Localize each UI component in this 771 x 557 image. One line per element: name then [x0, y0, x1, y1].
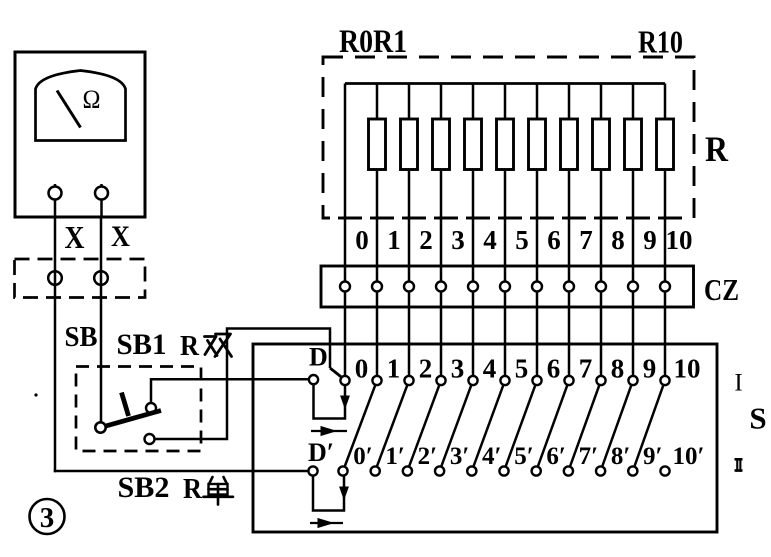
- CZ socket 5: [500, 282, 510, 292]
- CZ socket 7: [564, 282, 574, 292]
- contact 6-prime row II: [532, 466, 541, 475]
- contact 10 row I: [660, 376, 669, 385]
- svg-text:0: 0: [355, 354, 369, 384]
- contact 0-prime row II: [338, 466, 347, 475]
- svg-text:R10: R10: [638, 24, 683, 60]
- figure number circled 3: [30, 499, 65, 534]
- CZ socket 8: [596, 282, 606, 292]
- tick: tap line 8 crosses dashed box bottom: [594, 217, 608, 220]
- svg-text:3: 3: [451, 225, 465, 255]
- label dan (single): [204, 477, 234, 505]
- wire: right lead from ohmmeter down to SB1 pivot: [100, 217, 103, 428]
- brush D left pin: [309, 375, 318, 384]
- resistor R5: [497, 119, 514, 170]
- svg-text:5′: 5′: [514, 443, 534, 470]
- wire: tap line 9: [632, 84, 635, 377]
- svg-text:SB2: SB2: [118, 471, 170, 504]
- svg-text:R: R: [705, 129, 729, 169]
- resistor R4: [465, 119, 482, 170]
- ohmmeter case: [15, 52, 145, 217]
- svg-text:10: 10: [666, 225, 693, 255]
- socket right: [94, 271, 108, 285]
- svg-text:R: R: [183, 474, 203, 505]
- svg-text:D′: D′: [308, 438, 334, 467]
- tick: tap line 10 crosses dashed box bottom: [658, 217, 672, 220]
- svg-text:7′: 7′: [579, 443, 599, 470]
- wire: tap line 5: [504, 84, 507, 377]
- wire: SB1 lower contact via R-shuang loop to wiper D: [154, 329, 330, 440]
- contact 1 row I: [372, 376, 381, 385]
- wire: bottom run SB2 to D-prime brush: [54, 470, 309, 473]
- strap 9-prime to 10: [633, 381, 665, 472]
- strap 8-prime to 9: [601, 381, 633, 472]
- svg-text:10′: 10′: [672, 443, 704, 470]
- contact 9 row I: [628, 376, 637, 385]
- svg-text:9′: 9′: [643, 443, 663, 470]
- contact 4 row I: [468, 376, 477, 385]
- contact 2 row I: [404, 376, 413, 385]
- stray dot: [34, 393, 37, 396]
- contact 5-prime row II: [499, 466, 508, 475]
- strap 5-prime to 6: [504, 381, 537, 472]
- strap 1-prime to 2: [375, 381, 409, 472]
- wire: tap line 0: [344, 84, 347, 377]
- plug board CZ: [321, 266, 694, 307]
- svg-text:7: 7: [579, 225, 593, 255]
- contact 9-prime row II: [628, 466, 637, 475]
- wire: tap line 2: [408, 84, 411, 377]
- svg-text:5: 5: [515, 354, 529, 384]
- tick: tap line 2 crosses dashed box bottom: [402, 217, 416, 220]
- meter needle: [57, 91, 81, 128]
- resistor R3: [433, 119, 450, 170]
- wire: left lead from ohmmeter down: [54, 217, 57, 472]
- svg-text:I: I: [734, 370, 742, 397]
- contact 4-prime row II: [467, 466, 476, 475]
- svg-text:6: 6: [547, 354, 561, 384]
- strap 4-prime to 5: [472, 381, 505, 472]
- strap 7-prime to 8: [568, 381, 601, 472]
- CZ socket 10: [660, 282, 670, 292]
- tick: tap line 4 crosses dashed box bottom: [466, 217, 480, 220]
- wire: resistor top bus: [345, 82, 665, 85]
- contact 3-prime row II: [435, 466, 444, 475]
- resistor R9: [625, 119, 642, 170]
- switch SB1 lower contact: [145, 434, 155, 444]
- svg-text:10: 10: [674, 354, 701, 384]
- svg-text:2: 2: [419, 354, 433, 384]
- ohmmeter terminal right: [100, 184, 103, 217]
- wire: tap line 8: [600, 84, 603, 377]
- svg-text:5: 5: [515, 225, 529, 255]
- strap 6-prime to 7: [536, 381, 569, 472]
- brush D-prime arrow down: [341, 486, 348, 498]
- wire: tap line 4: [472, 84, 475, 377]
- CZ socket 2: [404, 282, 414, 292]
- strap 3-prime to 4: [440, 381, 473, 472]
- svg-text:3′: 3′: [450, 443, 470, 470]
- svg-text:9: 9: [643, 354, 657, 384]
- switch SB1 box (dashed): [76, 367, 201, 452]
- label row II: [735, 458, 743, 472]
- ohmmeter terminal left: [54, 184, 57, 217]
- brush D-prime left pin: [308, 466, 317, 475]
- svg-text:S: S: [749, 401, 766, 436]
- contact 7-prime row II: [564, 466, 573, 475]
- meter face window: [36, 71, 126, 141]
- plug box (dashed): [15, 259, 146, 298]
- svg-text:X: X: [111, 220, 130, 253]
- CZ socket 3: [436, 282, 446, 292]
- label shuang (double): [205, 334, 232, 357]
- selector box S: [253, 344, 717, 532]
- socket left: [48, 271, 62, 285]
- contact 1-prime row II: [371, 466, 380, 475]
- contact 6 row I: [532, 376, 541, 385]
- strap 2-prime to 3: [407, 381, 441, 472]
- svg-text:1: 1: [387, 225, 401, 255]
- switch SB1 handle: [122, 393, 129, 417]
- contact 5 row I: [500, 376, 509, 385]
- svg-text:SB1: SB1: [117, 328, 167, 361]
- wire: tap line 7: [568, 84, 571, 377]
- svg-text:1: 1: [387, 354, 401, 384]
- brush D-prime travel arrow: [310, 522, 343, 524]
- tick: tap line 3 crosses dashed box bottom: [434, 217, 448, 220]
- wire: tap line 3: [440, 84, 443, 377]
- svg-text:6′: 6′: [546, 443, 566, 470]
- switch SB1 upper contact: [146, 403, 156, 413]
- wire: tap line 6: [536, 84, 539, 377]
- svg-text:3: 3: [451, 354, 465, 384]
- CZ socket 6: [532, 282, 542, 292]
- tick: tap line 9 crosses dashed box bottom: [626, 217, 640, 220]
- CZ socket 0: [340, 282, 350, 292]
- svg-text:R0R1: R0R1: [339, 24, 407, 60]
- svg-text:CZ: CZ: [704, 272, 739, 307]
- svg-text:2: 2: [419, 225, 433, 255]
- contact 8-prime row II: [596, 466, 605, 475]
- resistor R8: [593, 119, 610, 170]
- svg-text:SB: SB: [65, 322, 98, 353]
- svg-text:X: X: [65, 219, 85, 255]
- wire: SB1 upper contact to D left brush: [151, 379, 309, 403]
- brush D feed loop: [314, 384, 346, 419]
- tick: tap line 0 crosses dashed box bottom: [338, 217, 352, 220]
- contact 8 row I: [596, 376, 605, 385]
- resistor R10: [657, 119, 674, 170]
- svg-text:2′: 2′: [418, 443, 438, 470]
- svg-text:R: R: [180, 331, 200, 362]
- contact 3 row I: [436, 376, 445, 385]
- tick: tap line 7 crosses dashed box bottom: [562, 217, 576, 220]
- CZ socket 1: [372, 282, 382, 292]
- contact 10-prime row II: [660, 466, 669, 475]
- svg-text:0′: 0′: [353, 443, 373, 470]
- switch SB1 pivot: [95, 422, 105, 432]
- svg-text:Ω: Ω: [83, 85, 101, 114]
- switch SB1 blade: [101, 411, 162, 428]
- CZ socket 9: [628, 282, 638, 292]
- resistor R7: [561, 119, 578, 170]
- resistor box (dashed): [323, 57, 694, 218]
- CZ socket 4: [468, 282, 478, 292]
- wire: tap line 10: [664, 84, 667, 377]
- svg-text:8: 8: [611, 354, 625, 384]
- svg-text:D: D: [309, 343, 328, 372]
- resistor R2: [401, 119, 418, 170]
- svg-text:1′: 1′: [385, 443, 405, 470]
- tick: tap line 1 crosses dashed box bottom: [370, 217, 384, 220]
- brush D travel arrow: [311, 430, 347, 432]
- svg-text:8: 8: [611, 225, 625, 255]
- svg-text:0: 0: [355, 225, 369, 255]
- svg-text:9: 9: [643, 225, 657, 255]
- svg-text:4: 4: [483, 225, 497, 255]
- wire: tap line 1: [376, 84, 379, 377]
- contact 7 row I: [564, 376, 573, 385]
- svg-text:3: 3: [40, 502, 55, 534]
- contact 0 row I: [340, 376, 349, 385]
- tick: tap line 6 crosses dashed box bottom: [530, 217, 544, 220]
- svg-text:4: 4: [483, 354, 497, 384]
- resistor R1: [369, 119, 386, 170]
- svg-text:6: 6: [547, 225, 561, 255]
- brush D-prime feed loop: [313, 476, 344, 511]
- tick: tap line 5 crosses dashed box bottom: [498, 217, 512, 220]
- brush D arrow down: [342, 395, 349, 407]
- wiper D blade slant: [330, 368, 345, 380]
- svg-text:7: 7: [579, 354, 593, 384]
- strap 0-prime to 1: [343, 381, 377, 472]
- svg-text:8′: 8′: [611, 443, 631, 470]
- resistor R6: [529, 119, 546, 170]
- contact 2-prime row II: [403, 466, 412, 475]
- svg-text:4′: 4′: [482, 443, 502, 470]
